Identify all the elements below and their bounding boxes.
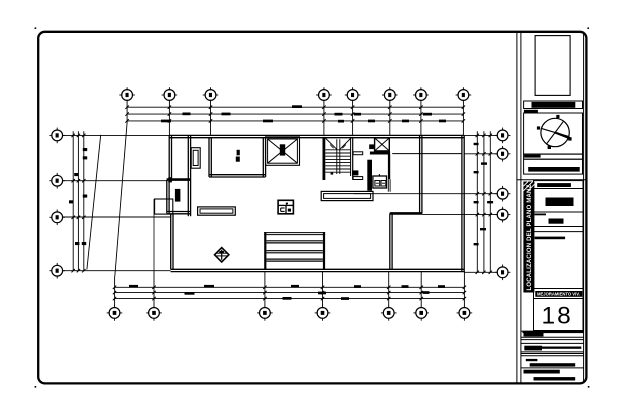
room walls top-centre — [209, 138, 266, 177]
info box C tall — [534, 227, 584, 289]
left dimension texts — [69, 148, 87, 245]
wall lower-left room left — [167, 180, 169, 213]
right dimension lines — [476, 131, 492, 274]
kitchen wall black segment — [388, 154, 390, 179]
right grid bubble R5 — [495, 265, 511, 281]
right grid bubble R2 — [495, 146, 511, 162]
bottom bar 1b — [524, 333, 544, 337]
bottom bar 3b — [530, 363, 576, 366]
header bar text — [532, 102, 576, 108]
wide black bar — [528, 167, 580, 172]
wc fixture symbol — [278, 200, 293, 214]
info box A text — [546, 198, 574, 207]
wall top exterior — [169, 135, 464, 137]
top dimension lines — [125, 106, 465, 123]
right dimension texts — [474, 143, 494, 246]
top grid bubble T8 — [456, 87, 472, 103]
svg-text:18: 18 — [542, 303, 573, 330]
wall step horizontal y213 — [390, 212, 422, 215]
slanted lot boundary line — [87, 135, 101, 270]
north compass — [537, 115, 572, 149]
project box — [524, 159, 583, 174]
bottom bar 4a — [524, 370, 560, 374]
stair black step — [352, 170, 358, 175]
roof edge line y153.6 — [392, 153, 462, 155]
bottom grid bubble B7 — [457, 305, 473, 321]
left grid lines — [63, 135, 171, 270]
exterior step lower-left — [155, 199, 173, 214]
sheet border frame — [38, 32, 586, 384]
wall lower-left room bottom — [167, 212, 191, 214]
kitchen counter black bar — [367, 160, 372, 191]
wall thick joint left — [168, 177, 172, 182]
room label glyph — [236, 150, 240, 162]
small label box — [534, 181, 584, 189]
stair landing bar lower — [353, 177, 363, 180]
bottom grid bubble B6 — [413, 305, 429, 321]
bottom bar 3a — [526, 359, 538, 361]
duct bar below skylight — [370, 152, 390, 155]
right grid bubble R1 — [495, 128, 511, 144]
wall bottom exterior — [171, 269, 465, 271]
sheet number box — [534, 299, 584, 331]
logo box — [535, 36, 570, 96]
info box B texts — [535, 214, 564, 224]
bottom dimension lines — [113, 286, 466, 301]
left dimension lines — [72, 131, 86, 272]
top grid stems — [169, 102, 463, 135]
bottom grid bubble B1 — [107, 305, 123, 321]
corner dot bottom-left — [35, 386, 37, 388]
bottom bar 1a — [523, 332, 584, 334]
compass box — [524, 113, 583, 154]
top grid bubble T6 — [382, 87, 398, 103]
narrow box under compass — [524, 154, 583, 159]
bottom bar 2a — [524, 346, 542, 351]
kitchen wall double line — [388, 179, 390, 192]
wall corridor right — [188, 135, 190, 216]
info box B — [534, 212, 584, 227]
info box A — [534, 189, 584, 213]
top grid bubble T1 — [119, 87, 135, 103]
stair landing bar upper — [353, 152, 363, 155]
wall right exterior — [462, 135, 464, 271]
bottom row line 5 — [521, 367, 584, 369]
small skylight box with X — [375, 138, 390, 151]
wall left lower — [171, 214, 173, 269]
window detail — [191, 148, 200, 169]
bottom grid bubble B5 — [381, 305, 397, 321]
slanted grid line 1 — [115, 102, 128, 305]
louvered roof hatch — [264, 232, 325, 269]
top grid bubble T2 — [162, 87, 178, 103]
bottom dimension texts — [129, 285, 445, 300]
modification bar — [535, 291, 582, 297]
right grid lines — [354, 135, 497, 272]
black flue square — [369, 144, 374, 149]
bottom grid bubble B2 — [146, 305, 162, 321]
corner dot top-left — [35, 27, 37, 29]
sheet number 18 — [542, 303, 573, 330]
drain diamond symbol — [215, 248, 229, 262]
right grid bubble R3 — [495, 186, 511, 202]
bottom row line 2 — [521, 337, 584, 339]
svg-text:MEJORAMIENTO VIV.: MEJORAMIENTO VIV. — [537, 292, 580, 297]
left grid bubble L2 — [49, 173, 65, 189]
skylight box with X — [266, 137, 300, 165]
bottom grid stems — [154, 199, 464, 306]
planter table — [198, 207, 236, 215]
top dimension texts — [161, 105, 446, 122]
modification bar box — [534, 289, 584, 299]
bottom row lines 4 — [521, 352, 584, 356]
top grid bubble T4 — [316, 87, 332, 103]
bar under compass — [524, 155, 541, 158]
bottom row line 3 — [521, 342, 584, 344]
top grid bubble T5 — [345, 87, 361, 103]
left grid bubble L1 — [49, 128, 65, 144]
vertical title strip — [523, 182, 534, 293]
title block border lines — [517, 32, 584, 384]
strip hatch — [523, 182, 534, 191]
left grid bubble L4 — [49, 263, 65, 279]
bottom row line 1 — [521, 330, 584, 332]
info box C text — [535, 237, 566, 240]
stove appliance box — [373, 174, 387, 188]
wall interior vertical x420 — [420, 135, 422, 213]
wall left upper — [169, 135, 171, 180]
bottom grid bubble B3 — [257, 305, 273, 321]
balcony shelf — [321, 191, 373, 200]
corner dot top-right — [587, 27, 589, 29]
header bar box — [524, 101, 583, 109]
top grid bubble T7 — [413, 87, 429, 103]
section divider — [517, 179, 586, 181]
corner dot bottom-right — [588, 386, 590, 388]
bottom grid bubble B4 — [315, 305, 331, 321]
staircase — [324, 137, 353, 180]
bottom bar 4b — [534, 377, 576, 380]
left grid bubble L3 — [49, 210, 65, 226]
stair tread mark — [331, 173, 334, 175]
right grid bubble R4 — [495, 207, 511, 223]
svg-text:LOCALIZACION DEL PLANO MANZ.: LOCALIZACION DEL PLANO MANZ. — [527, 183, 533, 291]
door black bar lower-left — [175, 189, 181, 202]
sub bar text — [524, 110, 538, 113]
wall step vertical x390 — [390, 213, 392, 269]
bottom bar 2b — [542, 347, 581, 349]
top grid bubble T3 — [203, 87, 219, 103]
small label bar — [537, 183, 571, 187]
wall segment y180 left — [167, 178, 191, 181]
